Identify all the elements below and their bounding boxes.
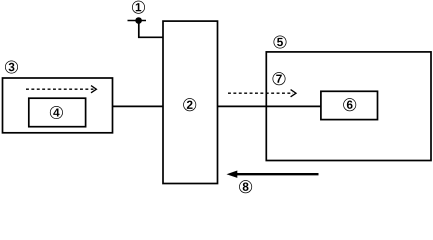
label 1 bbox=[132, 1, 144, 13]
node: terminal dot 1 bbox=[135, 17, 142, 24]
box 2: central tall rectangle bbox=[163, 21, 218, 183]
wire: box2 to box6 bbox=[218, 105, 321, 107]
box 5: right outer rectangle bbox=[266, 52, 431, 161]
label 3 bbox=[5, 61, 17, 73]
box 4: left inner rectangle bbox=[29, 98, 86, 127]
label 6 bbox=[344, 99, 356, 111]
wire: elbow from dot 1 to block 2 bbox=[139, 21, 163, 38]
box 6: right inner rectangle bbox=[321, 91, 378, 119]
wire: top terminal tick bbox=[128, 20, 147, 22]
label 2 bbox=[184, 99, 196, 111]
box 3: left outer rectangle bbox=[3, 78, 113, 133]
label 7 bbox=[273, 73, 285, 85]
dashed arrow 7: into right rectangle bbox=[228, 90, 296, 97]
label 8 bbox=[239, 181, 251, 193]
label 4 bbox=[50, 106, 62, 118]
dashed arrow 3: inside left rectangle bbox=[26, 86, 96, 93]
solid arrow 8: pointing left bbox=[227, 171, 319, 178]
wire: box3 to box2 bbox=[113, 105, 164, 107]
label 5 bbox=[274, 36, 286, 48]
